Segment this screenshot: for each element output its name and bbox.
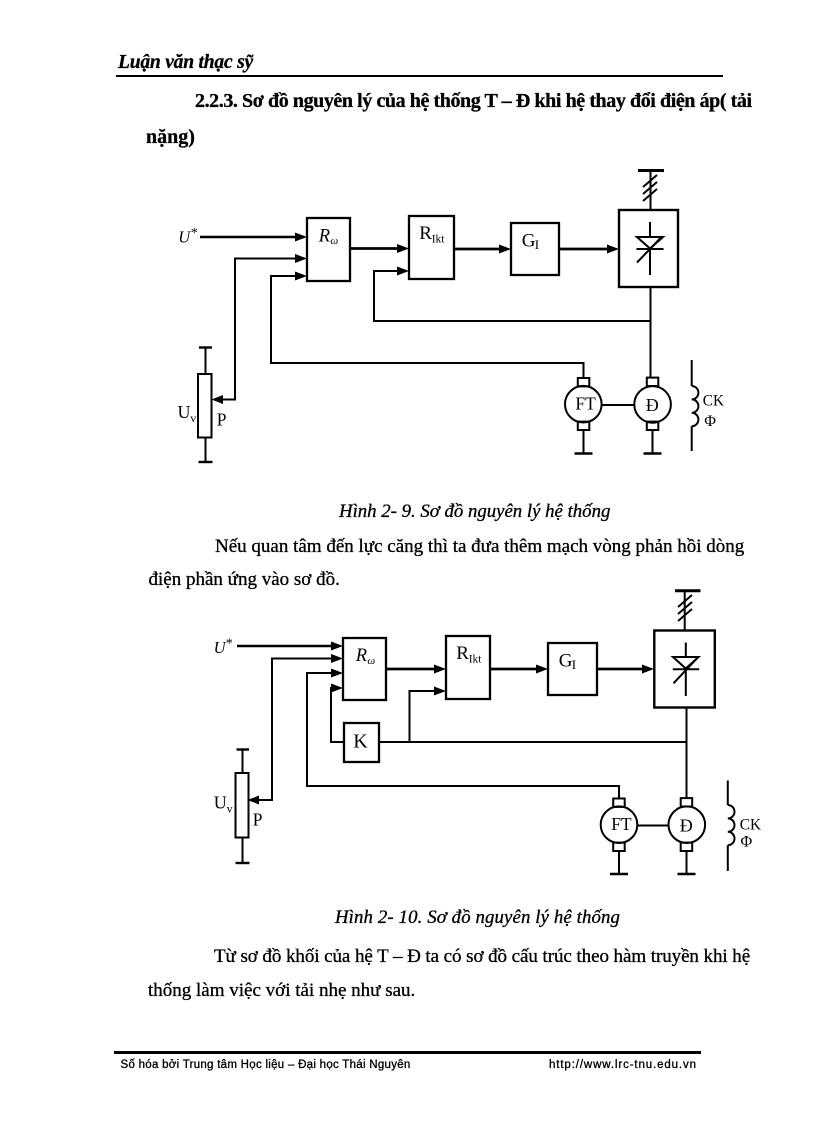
svg-text:I: I xyxy=(572,657,576,672)
thyristor symbol xyxy=(637,222,664,275)
svg-text:R: R xyxy=(355,646,367,666)
paragraph 2 line 2 xyxy=(148,980,415,1002)
svg-text:v: v xyxy=(190,411,196,425)
potentiometer P xyxy=(198,348,213,463)
shaft FT-Đ xyxy=(637,825,668,827)
wire U* to Rω xyxy=(200,233,307,242)
motor Đ xyxy=(634,378,671,454)
svg-text:P: P xyxy=(217,410,227,430)
node U* input label xyxy=(178,226,198,247)
tacho generator FT xyxy=(565,378,602,454)
svg-text:U: U xyxy=(214,638,227,657)
header rule xyxy=(116,75,723,78)
potentiometer P xyxy=(236,750,250,864)
label Φ xyxy=(704,413,716,430)
label Uv xyxy=(178,402,197,425)
wire speed feedback FT to Rω xyxy=(271,272,584,379)
svg-text:Φ: Φ xyxy=(704,413,716,430)
block K xyxy=(344,723,379,762)
wire RIkt to GI xyxy=(454,245,511,254)
wire Rω to RIkt xyxy=(386,665,446,674)
svg-text:Φ: Φ xyxy=(741,833,753,850)
svg-text:Ikt: Ikt xyxy=(469,654,483,666)
wire K to Rω bottom input xyxy=(331,684,344,743)
paragraph 2 line 1 xyxy=(214,946,750,968)
field winding CK coil xyxy=(728,781,735,872)
svg-text:G: G xyxy=(559,651,573,672)
label CK xyxy=(740,817,761,834)
wire GI to converter xyxy=(559,245,619,254)
svg-text:R: R xyxy=(456,643,469,664)
AC supply symbol xyxy=(638,171,664,211)
footer right url xyxy=(549,1059,697,1071)
block GI xyxy=(511,223,559,275)
block Rω xyxy=(307,218,350,281)
node U* input label xyxy=(214,637,233,658)
heading line 1 xyxy=(195,90,752,113)
block RIkt xyxy=(446,636,490,699)
paragraph 1 line 2 xyxy=(149,569,340,591)
thyristor symbol xyxy=(673,643,699,697)
motor Đ xyxy=(669,798,706,874)
svg-text:ω: ω xyxy=(367,655,375,667)
heading line 2 xyxy=(146,126,195,149)
header: Luận văn thạc sỹ xyxy=(118,52,253,74)
converter block (thyristor rectifier) xyxy=(654,631,715,708)
wire Rω to RIkt xyxy=(350,244,409,253)
converter block (thyristor rectifier) xyxy=(619,210,678,287)
svg-text:CK: CK xyxy=(703,393,724,410)
block GI xyxy=(548,643,597,695)
svg-text:Đ: Đ xyxy=(680,816,693,836)
wire potentiometer wiper to Rω xyxy=(212,254,308,404)
wire current feedback to RIkt xyxy=(374,267,651,322)
svg-text:FT: FT xyxy=(575,394,596,414)
svg-text:v: v xyxy=(227,802,233,816)
caption 1 xyxy=(339,501,610,523)
caption 2 xyxy=(335,907,620,929)
wire GI to converter xyxy=(597,665,654,674)
block RIkt xyxy=(409,216,454,279)
AC supply symbol xyxy=(675,591,701,631)
svg-text:ω: ω xyxy=(330,235,338,247)
svg-text:FT: FT xyxy=(611,814,632,834)
wire converter to motor Đ (armature) xyxy=(650,287,652,378)
svg-text:U: U xyxy=(178,402,191,422)
svg-text:U: U xyxy=(178,228,191,247)
label Φ xyxy=(741,833,753,850)
label P xyxy=(253,809,263,829)
field winding CK coil xyxy=(692,360,699,451)
wire U* to Rω xyxy=(237,642,343,651)
wire speed feedback FT to Rω xyxy=(307,669,619,799)
svg-text:Ikt: Ikt xyxy=(432,234,446,246)
wire RIkt to GI xyxy=(490,665,548,674)
block Rω xyxy=(343,638,386,700)
label P xyxy=(217,410,227,430)
svg-text:U: U xyxy=(214,793,227,813)
wire converter to motor Đ (armature) xyxy=(686,708,688,799)
footer rule xyxy=(114,1051,701,1054)
tacho generator FT xyxy=(601,799,638,875)
svg-text:R: R xyxy=(318,226,330,246)
svg-text:P: P xyxy=(253,809,263,829)
shaft FT-Đ xyxy=(602,404,635,406)
svg-text:I: I xyxy=(535,237,539,252)
wire potentiometer wiper to Rω xyxy=(248,654,344,805)
svg-text:Đ: Đ xyxy=(646,395,659,415)
label CK xyxy=(703,393,724,410)
svg-text:R: R xyxy=(419,223,432,244)
footer left text xyxy=(121,1059,411,1071)
wire current feedback armature to K xyxy=(379,741,687,743)
svg-text:*: * xyxy=(191,226,198,241)
wire current feedback to RIkt xyxy=(410,687,447,743)
svg-text:K: K xyxy=(353,731,368,753)
svg-text:CK: CK xyxy=(740,817,761,834)
paragraph 1 line 1 xyxy=(215,536,744,558)
svg-text:G: G xyxy=(522,231,536,252)
label Uv xyxy=(214,793,233,816)
svg-text:*: * xyxy=(226,637,233,652)
